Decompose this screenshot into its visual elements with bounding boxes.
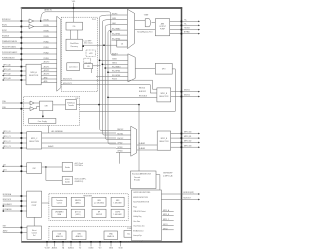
- chip body outline: [22, 7, 182, 242]
- svg-text:PDIN1: PDIN1: [44, 47, 49, 49]
- svg-text:TXCKO: TXCKO: [184, 28, 191, 30]
- junction OSC: [45, 166, 47, 168]
- wire PLL to recovery right: [77, 30, 79, 39]
- svg-text:GCPW: GCPW: [115, 212, 120, 214]
- block register r1c1: [52, 197, 67, 206]
- svg-text:AOUT1: AOUT1: [44, 66, 50, 69]
- wire DIR core to VCO: [53, 104, 66, 106]
- block loss detect: [29, 118, 56, 123]
- svg-text:4/6 MFCLK): 4/6 MFCLK): [75, 181, 84, 183]
- comparator U2 (RX2): [29, 24, 34, 28]
- block power p3: [104, 231, 118, 240]
- wire AOUT3: [41, 74, 57, 76]
- block REGISTER (dashed group): [49, 194, 128, 221]
- svg-text:MCKOUT: MCKOUT: [184, 198, 191, 200]
- svg-text:VA: VA: [62, 247, 65, 250]
- svg-text:VD: VD: [79, 248, 82, 250]
- block power p1: [53, 231, 67, 240]
- block rate estimator (dashed): [84, 58, 91, 63]
- pin BYPAS: [170, 33, 199, 35]
- block register r1c4: [111, 197, 124, 206]
- wire control port to registers: [42, 202, 49, 204]
- pin MPIO_B2: [171, 142, 199, 144]
- svg-text:AOUT0: AOUT0: [44, 61, 50, 64]
- svg-text:PDATA/GPIO/AUX0: PDATA/GPIO/AUX0: [2, 40, 17, 43]
- svg-text:SELECTOR: SELECTOR: [159, 141, 169, 143]
- chip top border: [21, 7, 182, 9]
- block DIR (dashed group): [24, 96, 80, 125]
- svg-text:Clock/Ratio: Clock/Ratio: [70, 42, 79, 45]
- wire AIN4: [41, 78, 57, 80]
- svg-text:RX2IN: RX2IN: [44, 25, 50, 27]
- svg-text:SELECTOR: SELECTOR: [159, 96, 169, 98]
- mux M3: [127, 9, 134, 48]
- svg-text:RBCK/U: RBCK/U: [139, 87, 146, 89]
- wire divider N down: [91, 69, 93, 73]
- svg-text:SLAVE3: SLAVE3: [139, 147, 146, 150]
- pin VA (bottom): [62, 242, 64, 247]
- chip right border: [181, 7, 183, 242]
- svg-text:AGND1: AGND1: [52, 247, 58, 250]
- wire divider N output: [93, 65, 101, 67]
- svg-text:PLL2: PLL2: [92, 19, 96, 21]
- block AES3 output driver: [155, 19, 169, 36]
- block register r1c3: [92, 197, 106, 206]
- svg-text:Standard AES3/IEC958: Standard AES3/IEC958: [132, 172, 151, 175]
- svg-text:AOUT3: AOUT3: [44, 73, 50, 76]
- svg-text:MPIO_A2: MPIO_A2: [3, 73, 10, 76]
- svg-text:(+L GELGED): (+L GELGED): [94, 203, 104, 205]
- wire comparators to DIR core: [34, 102, 39, 104]
- junction cascade r4: [105, 67, 111, 69]
- svg-text:PDIN2: PDIN2: [44, 52, 49, 54]
- svg-text:MPIO_A3: MPIO_A3: [3, 77, 10, 80]
- wire VCO out to right: [77, 104, 140, 106]
- svg-text:DGND: DGND: [89, 248, 95, 250]
- wire M3 output 2: [135, 29, 156, 31]
- wire mux M4 tap down: [118, 152, 120, 163]
- block CS buffer: [117, 40, 127, 47]
- junction cascade r2: [100, 59, 112, 61]
- block reset control: [27, 226, 42, 239]
- block PLL: [66, 22, 83, 30]
- wire GPO to bus down: [172, 69, 175, 111]
- wire VCO down to decode: [138, 105, 140, 171]
- junction cascade r5: [108, 71, 112, 73]
- svg-text:RLRCK/C: RLRCK/C: [139, 91, 147, 93]
- comparator U2 output wire: [34, 26, 57, 28]
- block POWER SUPPLY (dashed group): [49, 226, 143, 241]
- svg-text:MOSI/SDA: MOSI/SDA: [3, 193, 12, 196]
- pin DGND (bottom): [90, 242, 92, 247]
- svg-text:MPIO_A0: MPIO_A0: [3, 64, 10, 67]
- svg-text:GBS: GBS: [116, 200, 119, 202]
- wire SLAVE3: [137, 149, 158, 151]
- pin MPIO_B0: [171, 133, 199, 135]
- wire AOUT1: [41, 67, 57, 69]
- pin VCOM (bottom): [46, 242, 48, 247]
- block register r2c1: [52, 209, 67, 217]
- junction cascade r3: [102, 63, 111, 65]
- svg-text:PORT: PORT: [32, 205, 37, 207]
- svg-text:Decode: Decode: [134, 177, 140, 179]
- svg-text:VD18: VD18: [118, 248, 122, 250]
- pin ERROR (INT): [161, 193, 198, 195]
- svg-text:PLL: PLL: [73, 26, 76, 28]
- svg-text:512/768 fs: 512/768 fs: [75, 165, 83, 167]
- junction DIR down: [42, 115, 44, 117]
- svg-text:SPI/I2C: SPI/I2C: [31, 202, 38, 204]
- pin MCKO2: [171, 96, 199, 98]
- svg-text:VDD: VDD: [72, 1, 76, 3]
- block VCO noise shaper: [66, 100, 77, 110]
- svg-text:AES3 IN: AES3 IN: [44, 9, 52, 12]
- svg-text:RX4IN: RX4IN: [44, 36, 50, 38]
- svg-text:SCKO (0.5MFC,: SCKO (0.5MFC,: [75, 179, 87, 181]
- wire MPIO_C0 to mux M4: [42, 132, 116, 134]
- pin AGND2 (bottom): [70, 242, 72, 247]
- wire MCLKOUT1: [61, 85, 157, 93]
- junction on RX1 wire: [40, 20, 42, 22]
- block MPIO_B2 SELECTOR: [157, 131, 170, 150]
- junction VCO bus: [98, 104, 100, 106]
- block register r1c2: [71, 197, 84, 206]
- wire AIN5: [41, 82, 57, 84]
- pin VD (bottom): [79, 242, 81, 247]
- wire OSC output: [42, 166, 63, 168]
- chip left border: [21, 7, 23, 242]
- svg-text:Jitter Clock: Jitter Clock: [84, 42, 93, 45]
- svg-text:AIN5: AIN5: [44, 80, 48, 83]
- comparator U1 (RX1): [29, 19, 34, 23]
- comparator U3 (CDA): [30, 101, 34, 105]
- junction recovery output: [82, 45, 84, 47]
- pin TX+: [170, 20, 199, 22]
- svg-text:TX+: TX+: [184, 20, 187, 22]
- svg-text:PLRCK/GPIO/AUX2: PLRCK/GPIO/AUX2: [2, 51, 17, 54]
- pin IGND (bottom): [110, 242, 112, 247]
- svg-text:GCPW DIR FUNCTIONS:: GCPW DIR FUNCTIONS:: [133, 192, 151, 194]
- block power bus: [124, 231, 134, 238]
- block divider N: [84, 64, 93, 69]
- block DIR/DIT functions: [132, 190, 162, 241]
- pin AGND1 (bottom): [54, 242, 56, 247]
- svg-text:Serial/Mystery Port: Serial/Mystery Port: [137, 31, 153, 34]
- wire MCLKOUT0: [61, 80, 157, 89]
- block MPIO_A SELECTION: [26, 64, 41, 85]
- junction on bus line: [110, 31, 112, 33]
- pin MPIO_B3: [171, 146, 199, 148]
- block jitter attenuator (hatched): [86, 50, 95, 56]
- bus wire: [108, 30, 116, 144]
- pin MPIO_B1: [171, 137, 199, 139]
- svg-text:RX1IN: RX1IN: [44, 19, 50, 21]
- svg-text:Encode: Encode: [134, 180, 140, 182]
- svg-text:CS: CS: [121, 44, 123, 46]
- block MPIO_B SELECTOR: [157, 88, 171, 102]
- svg-text:MPIO_C: MPIO_C: [31, 138, 38, 140]
- svg-text:MPIO_B0: MPIO_B0: [184, 132, 191, 134]
- svg-text:MPIO_B2: MPIO_B2: [184, 141, 191, 143]
- svg-text:'L GELGED': 'L GELGED': [113, 203, 122, 205]
- wire DIR core down: [42, 111, 44, 119]
- block register r2c3: [92, 209, 106, 217]
- pin MCKOUT: [161, 199, 198, 201]
- svg-text:VCOM: VCOM: [45, 248, 50, 250]
- wire SLAVE2: [137, 144, 158, 146]
- wire OSC to RCKO divider: [46, 179, 62, 181]
- block register r2c4: [111, 209, 124, 217]
- block divider: [62, 163, 72, 172]
- svg-text:VIO: VIO: [99, 248, 103, 250]
- svg-text:BP: BP: [98, 212, 100, 214]
- svg-text:ERROR DETECTION: ERROR DETECTION: [133, 197, 148, 199]
- wire control port to reset: [33, 217, 35, 226]
- svg-text:REGISTER: REGISTER: [83, 195, 92, 197]
- svg-text:GRP/BGRP: GRP/BGRP: [163, 173, 173, 175]
- svg-text:Recovery: Recovery: [71, 45, 78, 48]
- svg-text:RCKO: RCKO: [65, 179, 70, 181]
- svg-text:MCLKOUT1: MCLKOUT1: [63, 83, 72, 85]
- svg-text:PDIN0: PDIN0: [44, 41, 49, 43]
- pin MCKO1: [171, 91, 199, 93]
- svg-text:MCS/ADR0: MCS/ADR0: [3, 208, 12, 211]
- wire top route to bus: [41, 12, 116, 55]
- block power p2: [72, 231, 86, 240]
- svg-text:SELECTION: SELECTION: [29, 75, 39, 77]
- svg-text:MCKO1: MCKO1: [184, 90, 190, 92]
- wire PLL to recovery left: [70, 30, 72, 39]
- block OSC: [27, 163, 42, 174]
- svg-text:MPIO_A1: MPIO_A1: [3, 68, 10, 71]
- pin TX-: [170, 24, 199, 26]
- svg-text:CDA: CDA: [2, 100, 6, 103]
- svg-text:ERROR (INT): ERROR (INT): [184, 192, 195, 194]
- svg-text:(-RCU): (-RCU): [75, 214, 81, 216]
- svg-text:AIN4: AIN4: [44, 76, 48, 79]
- svg-text:RSCK/BLS: RSCK/BLS: [139, 96, 147, 98]
- junction VCO right: [138, 104, 140, 106]
- svg-text:x128: x128: [89, 53, 93, 55]
- svg-text:MCLKOUT0: MCLKOUT0: [63, 78, 72, 80]
- wire MPIO_C2 to mux M4: [42, 142, 116, 144]
- block GPO: [155, 63, 172, 74]
- svg-text:AGND2: AGND2: [68, 247, 74, 250]
- bus wire: [100, 15, 117, 131]
- svg-text:GROUP: GROUP: [96, 214, 102, 216]
- svg-text:MPIO_B: MPIO_B: [161, 93, 168, 95]
- svg-text:ADR2: ADR2: [3, 230, 8, 233]
- wire AOUT2: [41, 71, 57, 73]
- block DIR core: [40, 101, 53, 111]
- wire MPIO_C1 to mux M4: [42, 137, 116, 139]
- svg-text:SLAVE2: SLAVE2: [139, 142, 146, 145]
- pin TXCKO: [170, 29, 199, 31]
- svg-text:Flags: Flags: [133, 206, 137, 208]
- wire RSCK: [108, 96, 157, 98]
- wire recovery output to CS box: [83, 44, 117, 46]
- svg-text:GBS: GBS: [97, 200, 100, 202]
- chip bottom border: [21, 241, 182, 243]
- pin VD18 (bottom): [120, 242, 122, 247]
- wire MPIO_C3 to mux M4: [42, 147, 116, 149]
- wire mux M2 row7 feed: [96, 79, 112, 81]
- wire DIR status out: [80, 110, 176, 112]
- svg-text:(x MPIO_A): (x MPIO_A): [163, 174, 173, 177]
- wire mux M2 row6 feed: [96, 75, 112, 77]
- comparator U4 (CDB): [30, 107, 34, 111]
- wire M2 output to GPO: [135, 68, 155, 70]
- svg-text:SELECTION: SELECTION: [29, 141, 39, 143]
- wire ADC general: [48, 125, 50, 133]
- block control port: [27, 191, 42, 217]
- svg-text:PDIN3: PDIN3: [44, 58, 49, 60]
- block lock detector: [67, 63, 80, 71]
- svg-text:DRV/CE: DRV/CE: [75, 200, 81, 202]
- pin VIO (bottom): [99, 242, 101, 247]
- svg-text:IGND: IGND: [109, 248, 114, 250]
- svg-text:TX-: TX-: [184, 24, 187, 26]
- block RCKO divider: [62, 177, 72, 185]
- svg-text:PBCK/GPIO/AUX1: PBCK/GPIO/AUX1: [2, 46, 16, 49]
- bus wire: [105, 25, 116, 140]
- svg-text:MCKO2: MCKO2: [184, 95, 190, 97]
- svg-text:Bus: Bus: [127, 234, 130, 236]
- block MPIO_C SELECTION: [27, 132, 42, 149]
- mux M2: [128, 54, 135, 82]
- block clock and ratio recovery: [66, 39, 83, 50]
- comparator U1 output wire: [34, 20, 57, 22]
- svg-text:RX3IN: RX3IN: [44, 30, 50, 32]
- block AES3 decode: [131, 171, 157, 189]
- svg-text:MDO/ADR1: MDO/ADR1: [3, 203, 12, 206]
- svg-text:BYPAS: BYPAS: [184, 31, 190, 34]
- mux M1: [57, 16, 61, 91]
- svg-text:MPIO_B3: MPIO_B3: [184, 145, 191, 147]
- svg-text:MPIO_B: MPIO_B: [161, 138, 168, 140]
- wire M3 output to gate: [135, 20, 146, 22]
- svg-text:Non-PCM DETECTION: Non-PCM DETECTION: [133, 202, 149, 204]
- svg-text:MPIO_B1: MPIO_B1: [184, 136, 191, 138]
- wire OSC down: [45, 167, 47, 180]
- gate G1 (line driver): [145, 19, 151, 27]
- svg-text:PUMP: PUMP: [160, 29, 166, 31]
- svg-text:AOUT2: AOUT2: [44, 69, 50, 72]
- wire gate output: [152, 22, 156, 24]
- block register r2c2: [71, 209, 84, 217]
- bus wire: [102, 20, 116, 136]
- block PLL2 (dashed group): [61, 17, 97, 91]
- wire AOUT0: [41, 62, 57, 64]
- mux M4: [131, 126, 137, 156]
- svg-text:'L GELGED': 'L GELGED': [113, 214, 122, 216]
- wire decode to functions: [156, 175, 160, 190]
- svg-text:PUR/RDX/AUX3: PUR/RDX/AUX3: [2, 57, 15, 60]
